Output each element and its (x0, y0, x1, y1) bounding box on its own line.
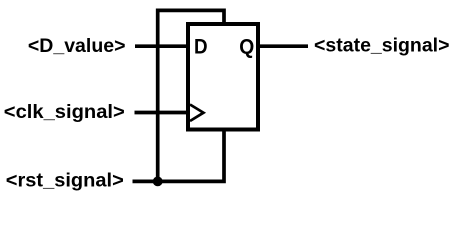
svg-text:<D_value>: <D_value> (28, 35, 126, 57)
wire: D input (135, 44, 186, 48)
wire: Q output (260, 44, 308, 48)
svg-text:<clk_signal>: <clk_signal> (4, 101, 125, 123)
clock input wedge (190, 105, 204, 122)
svg-text:<rst_signal>: <rst_signal> (6, 169, 124, 191)
svg-text:<state_signal>: <state_signal> (314, 35, 450, 57)
svg-text:D: D (194, 35, 208, 58)
junction dot on reset node (153, 177, 163, 187)
wire: clock input (135, 111, 187, 115)
D flip-flop U1 body (188, 24, 258, 130)
svg-text:Q: Q (239, 35, 254, 58)
wire: reset riser to top pin (158, 10, 224, 181)
wire: reset net from label to bottom pin (133, 131, 225, 181)
